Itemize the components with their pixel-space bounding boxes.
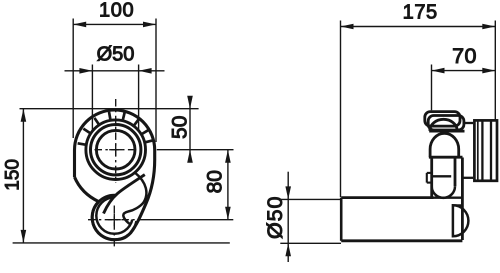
dim 50 line (189, 96, 191, 162)
tail outer edge (117, 158, 155, 240)
dim 50 arrow bottom (187, 150, 193, 163)
nut second rounded rect (428, 116, 464, 131)
dim diam50 side ext top (280, 198, 341, 200)
center cross C1 h (109, 149, 122, 151)
dim 80 arrow bottom (225, 207, 231, 220)
ext line C2 y220 (138, 219, 233, 221)
dim 150 arrow bottom (21, 230, 27, 243)
ext line top y109 (20, 108, 199, 110)
nut bottom line (429, 156, 463, 159)
svg-text:50: 50 (169, 116, 192, 139)
svg-text:100: 100 (99, 0, 134, 21)
dim 80 arrow top (225, 150, 231, 163)
dim 100 ext right (155, 19, 157, 143)
knurl rib 6 (134, 119, 139, 126)
pipe end dome cap (453, 205, 468, 236)
pipe top edge (341, 196, 433, 199)
tube joint tick (432, 175, 452, 177)
dim 100 line (73, 23, 156, 25)
knurl rib 3 (94, 118, 99, 125)
centerline C1 vertical (115, 99, 117, 183)
body outline (front view) (75, 110, 155, 177)
dim 175 arrow left (341, 24, 354, 30)
center cross C2 h (108, 219, 121, 221)
outlet connector top (464, 122, 473, 124)
outlet groove line 1 (477, 120, 479, 180)
knurl rib 5 (123, 112, 125, 121)
dim 70 arrow left (432, 68, 445, 74)
tube right edge (454, 157, 457, 186)
outlet groove line 3 (490, 120, 492, 180)
outlet grooved block (474, 120, 497, 180)
nut waist line (429, 130, 464, 133)
dim diam50 ext right (138, 65, 140, 131)
socket inner circle (96, 130, 135, 169)
outlet connector bottom (462, 177, 473, 179)
dome cap top tick (453, 204, 463, 206)
knurl rib 1 (78, 143, 87, 144)
tube bottom dome (432, 186, 455, 198)
dim diam50 side arrow top (285, 186, 291, 199)
center cross C1 v (115, 143, 117, 156)
ear top (427, 172, 432, 174)
knurl rib 4 (109, 112, 111, 121)
socket outer circle (91, 125, 141, 175)
knurl rib 8 (145, 140, 154, 142)
dim 80 line (227, 150, 229, 220)
nut dome arc 2 (430, 133, 459, 157)
knurl rib 2 (83, 129, 90, 134)
centerline C1 horizontal (95, 149, 134, 151)
dim diam50 side ext bottom (280, 242, 341, 244)
dim 175/70 ext right (494, 21, 496, 121)
tube left edge (430, 157, 433, 196)
pipe top edge right part (434, 197, 463, 199)
outlet groove line 2 (481, 120, 483, 180)
dim diam50 arrow left (79, 68, 92, 74)
dim 70 arrow right (482, 68, 495, 74)
outline bottom-left (75, 177, 118, 240)
ext line center y150 (157, 149, 234, 151)
nut dome arc 1 (430, 119, 457, 130)
svg-text:Ø50: Ø50 (263, 196, 287, 239)
centerline C2 vertical (113, 206, 115, 250)
ear left (426, 173, 428, 183)
svg-text:80: 80 (204, 170, 227, 193)
nut cap rounded rect (425, 112, 460, 127)
dim diam50 side line (287, 172, 289, 262)
dim 50 arrow top (187, 96, 193, 109)
dim 150 line (22, 109, 24, 243)
dim 150 arrow top (21, 109, 27, 122)
svg-text:175: 175 (403, 1, 438, 23)
ext line bottom y243 (13, 242, 230, 244)
dim diam50 ext left (91, 65, 93, 131)
dim 175 arrow right (482, 24, 495, 30)
svg-text:150: 150 (3, 159, 24, 191)
knurl rib 7 (141, 130, 149, 135)
svg-text:Ø50: Ø50 (97, 44, 135, 66)
ear bottom (427, 182, 432, 184)
channel inner wall (104, 175, 145, 214)
dim diam50 line (65, 70, 165, 72)
centerline C2 horizontal (88, 219, 136, 221)
tail white fill (occludes pipe circles) (106, 158, 155, 240)
center cross C2 v (113, 213, 115, 226)
svg-text:70: 70 (452, 44, 477, 68)
knurled ring inner circle (86, 120, 146, 180)
dim 175 line (341, 26, 496, 28)
dim 70 ext left (431, 65, 433, 111)
dim 175 ext left (340, 21, 342, 198)
pipe bottom edge (341, 239, 462, 242)
dim 100 arrow left (73, 22, 86, 28)
dim 100 ext left (72, 19, 74, 139)
bottom pipe outer circle (92, 195, 137, 240)
tail inner edge (123, 173, 146, 225)
bottom pipe inner circle (96, 197, 132, 233)
dim diam50 side arrow bottom (285, 243, 291, 256)
dim diam50 arrow right (139, 68, 152, 74)
dim 100 arrow right (143, 22, 156, 28)
dim 70 line (432, 70, 496, 72)
pipe left edge (340, 198, 343, 241)
body right edge (461, 158, 464, 241)
